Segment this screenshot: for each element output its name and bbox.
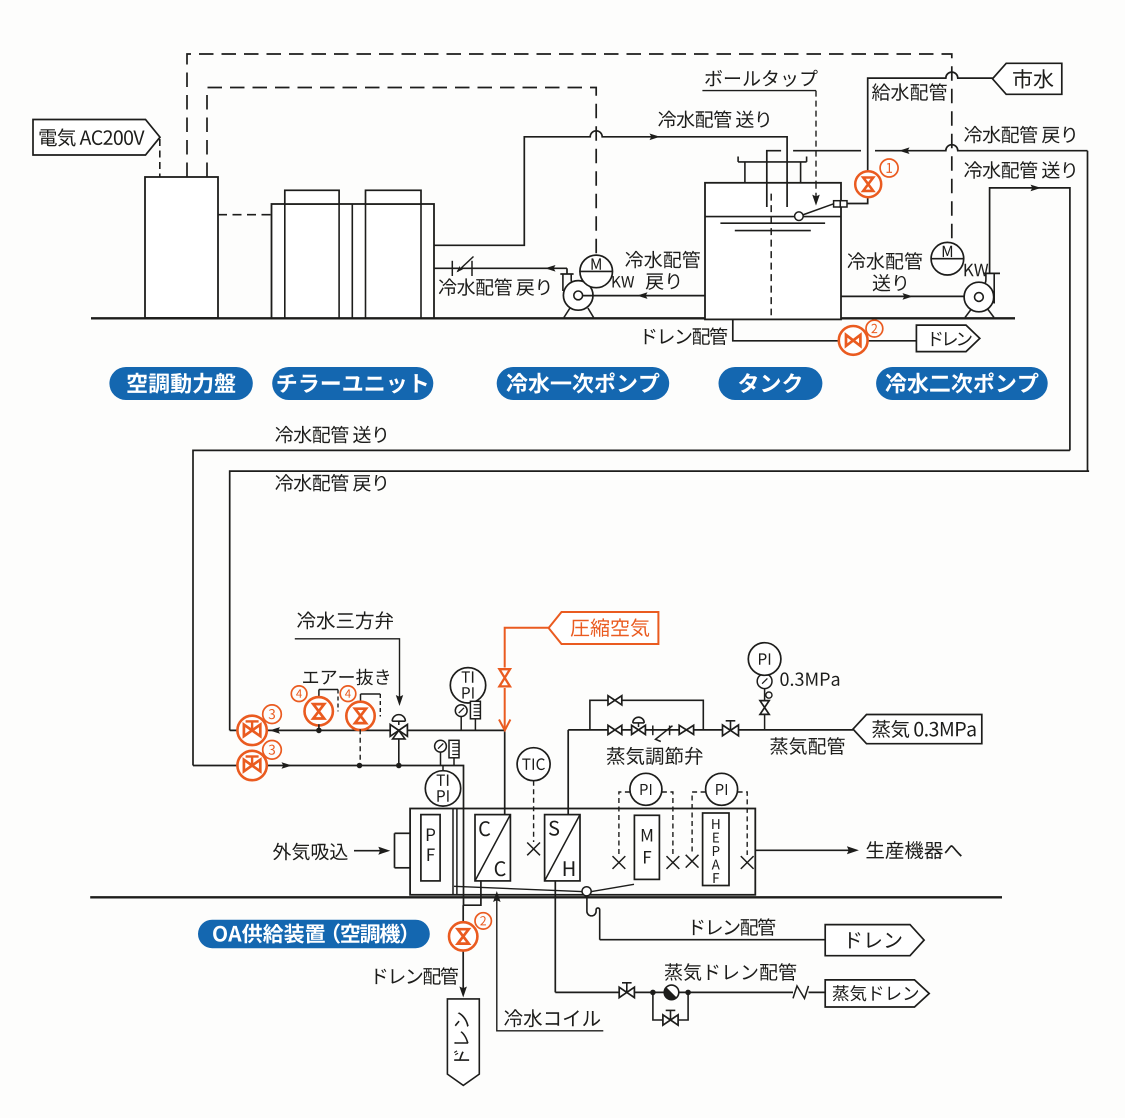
bypass valve [608, 696, 615, 705]
tank centerline (dashed) [770, 194, 772, 316]
ball tap pointer line [702, 90, 816, 92]
dp tapping lines HEPAF (dashed) [692, 792, 706, 854]
AHU drain line to tag [600, 939, 826, 941]
pill label 空調動力盤 [109, 367, 252, 400]
return drop inside tank [766, 183, 768, 207]
tag ドレン (AHU) [825, 925, 924, 956]
label エアー抜き [303, 669, 389, 686]
label 蒸気調節弁 [607, 747, 703, 765]
compressed air valve [499, 669, 510, 678]
instrument TI PI (return line) [450, 668, 485, 703]
label 冷水配管 送り (middle) [275, 426, 386, 444]
label 冷水配管 戻り (middle) [275, 474, 386, 492]
prefilter PF [421, 815, 440, 881]
tank drain pipe [733, 319, 842, 340]
medium filter MF [634, 815, 659, 879]
label 0.3MPa [780, 672, 839, 686]
label ドレン配管 (coil) [375, 967, 458, 985]
chilled water return pipe to tank [767, 145, 1088, 207]
instrument TI PI (supply line) [425, 771, 460, 806]
HEPA filter HEPAF [703, 813, 729, 886]
tag ドレン (vertical) [447, 999, 479, 1086]
tag 電気AC200V [33, 120, 160, 156]
flow arrow left on return [270, 727, 281, 734]
pressure gauge (supply line) [435, 740, 447, 752]
power panel 空調動力盤 [145, 177, 218, 318]
flow arrow left [899, 147, 910, 154]
label 冷水配管 戻り (right of primary pump) [625, 251, 700, 269]
outside air inlet 外気吸込 [273, 843, 348, 861]
valve 2 tank drain [839, 326, 868, 355]
separator [452, 809, 454, 895]
tank top frame [738, 161, 807, 163]
pressure gauge (return line) [455, 705, 467, 717]
vent fitting on return pipe [451, 261, 453, 276]
power wiring bus 1 (dashed) [187, 54, 952, 242]
label KW (secondary) [965, 264, 989, 277]
slope symbol [793, 986, 809, 999]
tag 圧縮空気 compressed air [549, 612, 659, 644]
tag ドレン (tank) [916, 325, 979, 352]
dashed link tag to panel [159, 139, 161, 177]
steam gate valve [723, 725, 731, 736]
tank タンク [705, 183, 841, 320]
primary pump 冷水一次ポンプ [566, 268, 568, 274]
union fitting [652, 726, 654, 736]
steam valve B [679, 725, 686, 734]
tag 蒸気 0.3MPa [853, 715, 982, 744]
steam heater S/H [545, 815, 580, 881]
tag 蒸気ドレン [825, 980, 929, 1007]
steam condensate pipe [554, 881, 556, 993]
supply connector pipe (middle) [193, 450, 1070, 765]
return riser right [1087, 151, 1089, 471]
thermometer well (supply line) [449, 740, 459, 758]
valve 3 on return [237, 716, 266, 745]
pill label 冷水二次ポンプ [876, 367, 1048, 400]
label 蒸気ドレン配管 [665, 963, 796, 981]
label 冷水三方弁 with pointer [297, 611, 393, 629]
label ドレン配管 (tank) [645, 327, 728, 345]
damper X marks HEPAF [686, 855, 699, 868]
feed water pipe 給水配管 [847, 72, 993, 203]
outlet to production 生産機器へ [755, 849, 849, 851]
chiller unit チラーユニット [272, 204, 435, 318]
dp tapping lines MF (dashed) [619, 792, 630, 855]
valve 2 coil drain [449, 922, 477, 950]
label ドレン配管 (AHU) [693, 918, 776, 936]
air vent valve 4a [319, 689, 338, 691]
steam trap bypass [653, 992, 688, 1020]
steam control valve 蒸気調節弁 [633, 717, 644, 723]
primary pump suction pipe from tank [583, 295, 705, 297]
ground line upper [91, 317, 1015, 319]
label 冷水コイル with pointer [497, 895, 604, 1031]
air vent valve 4b [361, 693, 381, 695]
steam trap [650, 990, 656, 996]
pill label OA供給装置(空調機) [198, 920, 430, 949]
secondary pump base [965, 310, 971, 318]
label KW (primary) [613, 276, 635, 287]
coil drain valve line [462, 905, 464, 925]
secondary pump discharge riser [984, 272, 1000, 274]
condensate gate valve [619, 987, 627, 997]
flow arrow right on supply [282, 762, 293, 769]
compressed air line [505, 628, 549, 668]
pill label タンク [719, 367, 823, 400]
valve 1 on feed water pipe [855, 171, 881, 197]
pill label 冷水一次ポンプ [497, 367, 670, 400]
flow arrow right [650, 134, 661, 141]
primary pump return pipe to chiller [434, 267, 567, 269]
chilled water supply pipe chiller to tank [434, 131, 787, 246]
label 冷水配管 戻り (top right) [964, 126, 1075, 144]
label ボールタップ [705, 70, 818, 87]
label 冷水配管 送り (left of secondary pump) [848, 252, 923, 270]
damper X marks MF [613, 856, 626, 869]
primary pump base [564, 308, 570, 318]
label 蒸気配管 [770, 737, 844, 755]
label circled 2 (tank drain) [866, 320, 883, 337]
power wiring bus 2 (dashed) [207, 88, 596, 256]
secondary pump suction pipe from tank [841, 295, 964, 297]
steam PI assembly [764, 715, 766, 730]
drain pan [454, 886, 582, 891]
AHU casing OA供給装置 [410, 809, 755, 895]
damper X (after C/C) [527, 843, 540, 856]
label 冷水配管 送り (top) [658, 110, 769, 128]
ground line lower [90, 896, 1002, 898]
label circled 3 (return) [263, 705, 282, 724]
return line lower (to coil) [230, 730, 505, 814]
secondary pump 冷水二次ポンプ [964, 282, 994, 312]
supply drop inside tank [786, 183, 788, 207]
thermometer well (return line) [470, 701, 480, 719]
label circled 3 (supply) [263, 741, 282, 760]
label 冷水配管 送り (right) [964, 161, 1075, 179]
float valve [834, 201, 841, 207]
drain trap [587, 896, 600, 940]
instrument PI (MF) [630, 773, 662, 805]
label circled 1 [880, 159, 898, 177]
steam valve A [608, 725, 615, 734]
cooling coil C/C [475, 815, 510, 881]
label circled 2 (coil drain) [475, 913, 491, 929]
three-way valve 冷水三方弁 [392, 715, 405, 722]
compressed air arrow [499, 720, 510, 731]
dashed link panel to chiller [218, 214, 272, 216]
label 給水配管 [872, 83, 947, 101]
instrument PI (HEPAF) [706, 773, 738, 805]
instrument TIC [517, 748, 550, 781]
return connector pipe (middle) [230, 471, 1089, 730]
valve 3 on supply [237, 751, 266, 780]
pill label チラーユニット [272, 367, 433, 400]
tag 市水 city water [993, 63, 1062, 94]
label circled 4 (a) [291, 686, 307, 702]
steam bypass loop [590, 700, 703, 730]
tank water level lines [705, 216, 841, 218]
supply line lower (to coil) [193, 766, 481, 906]
steam supply pipe 蒸気配管 [568, 729, 853, 731]
label circled 4 (b) [340, 686, 356, 702]
ball tap pointer arrow inside tank [815, 183, 817, 198]
label 冷水配管 戻り (primary) [439, 278, 550, 296]
